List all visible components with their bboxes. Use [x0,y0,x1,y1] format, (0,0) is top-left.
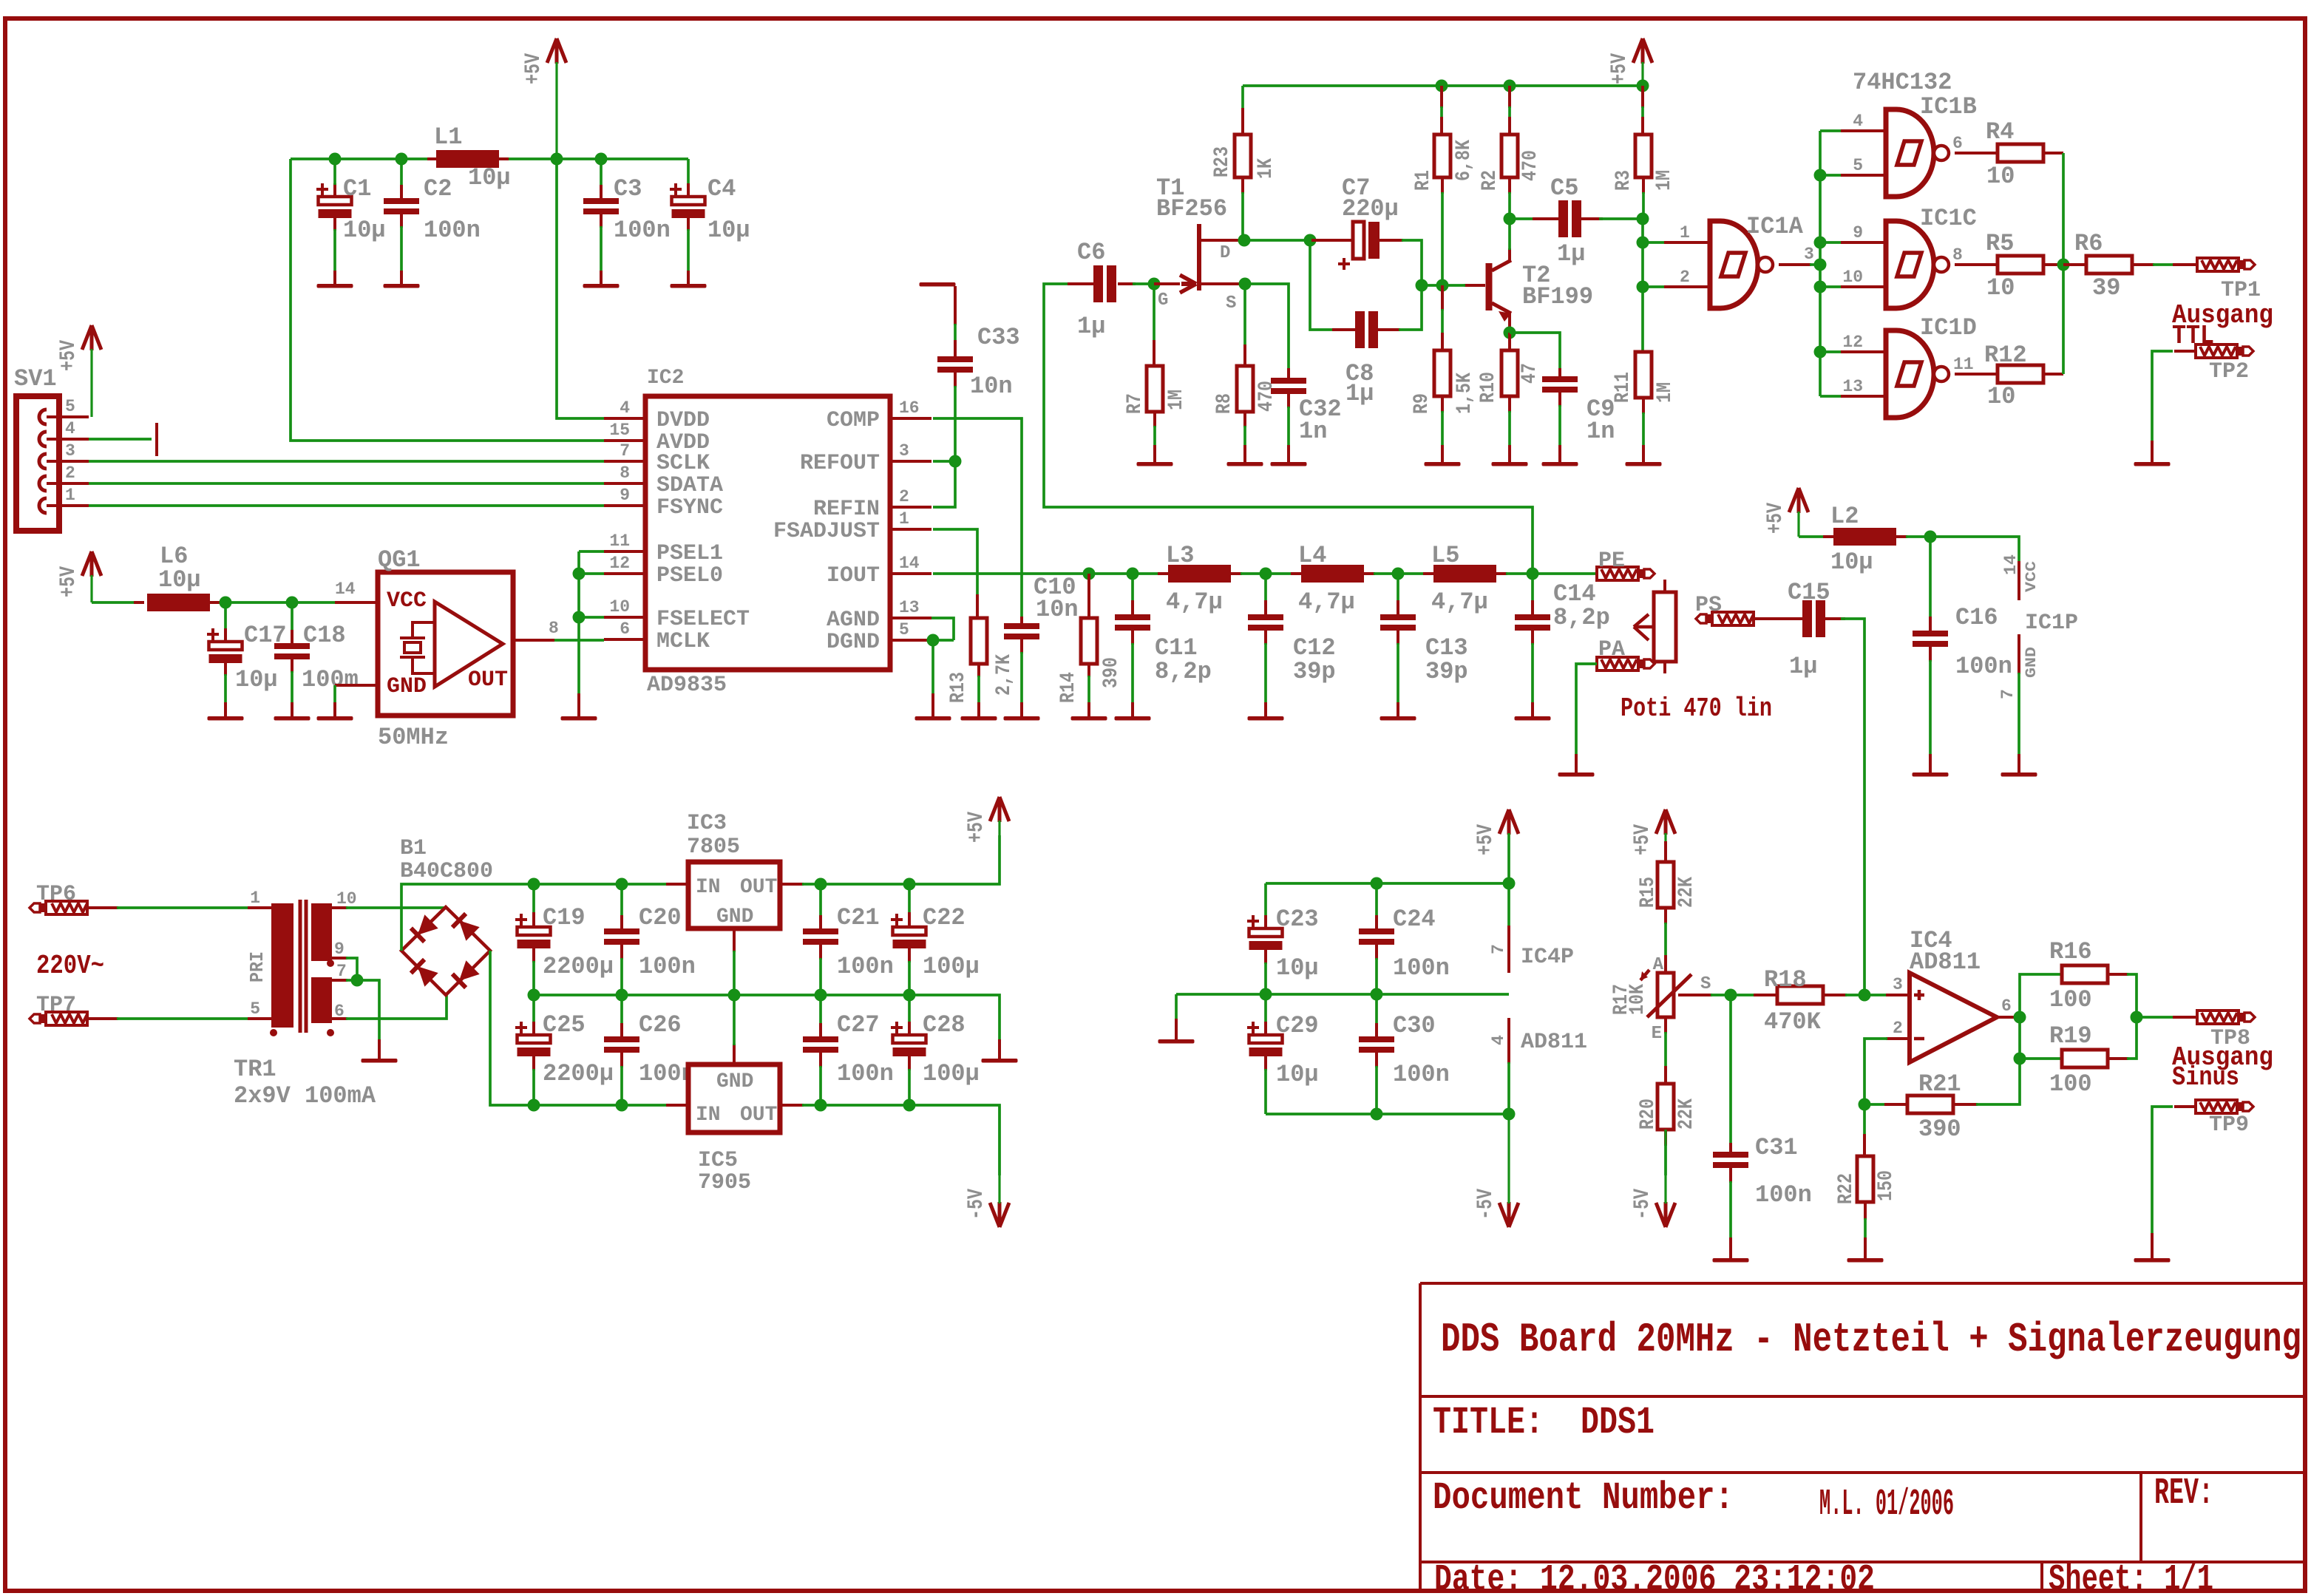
svg-text:AGND: AGND [827,608,880,633]
svg-text:390: 390 [1100,657,1123,688]
svg-text:10µ: 10µ [1276,954,1319,982]
pad TP6 [46,901,87,914]
ground for R22 [1847,1258,1884,1263]
wire FSADJUST to R13 [933,529,977,596]
svg-text:2: 2 [1680,268,1690,287]
svg-text:COMP: COMP [827,408,880,433]
wire L6 to QG1 VCC [220,601,336,604]
diode D-top-left of B1 [418,914,438,935]
svg-text:2200µ: 2200µ [543,1060,614,1087]
svg-text:C2: C2 [424,175,452,203]
svg-text:13: 13 [1842,377,1863,396]
svg-text:C24: C24 [1393,906,1436,933]
resistor R12 [1955,373,1999,376]
capacitor C20 [620,884,623,917]
capacitor C19 [532,884,535,914]
svg-text:VCC: VCC [387,588,427,614]
svg-text:2: 2 [899,487,909,506]
resistor R22 [1863,1104,1866,1135]
inductor L3 [1158,572,1170,575]
wire IC1A output to bus [1779,263,1811,266]
capacitor C18 [291,602,293,631]
svg-text:B40C800: B40C800 [400,859,493,884]
svg-text:C29: C29 [1276,1012,1319,1039]
inductor L1 [427,157,438,160]
svg-text:REV:: REV: [2154,1473,2213,1515]
power symbol +5V (7805 out) [990,797,1009,822]
svg-text:TP6: TP6 [36,882,76,907]
wire PSEL bus to ground [579,550,604,553]
node bus junctions [1814,169,1827,182]
svg-text:+5V: +5V [56,566,81,597]
wire TR1 center tap [332,957,347,960]
connector SV1 [16,396,59,531]
wire QG1 OUT to MCLK [513,639,554,642]
svg-text:REFIN: REFIN [813,497,880,522]
svg-text:100n: 100n [1955,653,2012,680]
svg-text:TP2: TP2 [2209,359,2249,384]
wire drain to C7/C8 [1244,239,1310,242]
svg-text:C6: C6 [1077,239,1105,266]
transistor T2 BF199 [1464,284,1467,287]
wire gate to R7 [1153,284,1155,342]
node PSEL junctions [573,568,586,580]
IC4P power pins [1507,926,1510,973]
svg-text:7: 7 [1998,689,2018,699]
capacitor C7 (220u) [1311,239,1355,242]
svg-text:OUT: OUT [740,876,777,899]
ground above C33 [920,282,956,287]
svg-text:IN: IN [696,876,721,899]
svg-text:D: D [1220,243,1230,263]
capacitor C32 [1287,368,1290,378]
svg-text:PS: PS [1695,593,1722,618]
svg-text:R11: R11 [1612,372,1635,403]
node -rail junctions [528,1099,540,1112]
ground for C11 [1115,716,1151,721]
svg-text:R14: R14 [1057,672,1080,703]
ground for C12 [1248,716,1284,721]
node T1 source junction [1239,278,1252,291]
resistor R10 [1508,333,1511,350]
svg-text:C31: C31 [1755,1134,1798,1161]
wire amp +5V rail [1243,84,1643,87]
IC IC5 7905 [688,1064,780,1133]
wire gate input bus [1819,131,1822,396]
wire L5 to PE [1506,572,1597,575]
svg-text:100n: 100n [837,953,894,980]
capacitor C11 [1131,574,1134,602]
svg-text:-5V: -5V [1473,1189,1499,1220]
wire bridge minus down [490,951,534,1105]
svg-text:10µ: 10µ [468,164,511,191]
svg-text:A: A [1653,955,1664,975]
wire filter tap to C6 [1044,284,1533,574]
svg-text:7805: 7805 [687,835,740,860]
svg-text:5: 5 [65,397,75,416]
svg-text:PRI: PRI [246,951,268,982]
power symbol +5V (IC4P) [1499,809,1518,835]
svg-text:16: 16 [899,398,920,418]
svg-text:4,7µ: 4,7µ [1166,588,1223,616]
resistor R4 [1955,152,1999,154]
resistor R3 [1641,86,1644,108]
capacitor C21 [819,884,822,917]
wire IC4 +5V rail [1266,883,1509,927]
svg-text:R21: R21 [1918,1070,1961,1098]
wire +5V filter rail [291,157,688,160]
svg-text:5: 5 [899,620,909,639]
svg-text:AD9835: AD9835 [647,673,727,698]
svg-text:SDATA: SDATA [656,473,723,498]
resistor R11 [1641,350,1644,352]
pad TP2 [2196,344,2237,358]
potentiometer wiper arrow [1634,614,1654,640]
svg-text:S: S [1700,974,1711,994]
node bypass mid junctions [1260,988,1272,1001]
svg-text:1: 1 [1680,223,1690,242]
svg-text:IC2: IC2 [647,367,684,390]
svg-text:14: 14 [335,580,356,599]
wire AVDD branch [291,159,604,441]
svg-text:R6: R6 [2074,230,2103,257]
svg-text:SV1: SV1 [14,365,57,393]
wire TR1 pin10 to bridge [332,906,347,909]
ground for bypass mid [1175,994,1178,1020]
pad PS [1712,612,1754,625]
svg-text:C33: C33 [977,324,1020,351]
svg-text:C30: C30 [1393,1012,1436,1039]
svg-text:8: 8 [620,463,630,483]
svg-text:PE: PE [1598,549,1625,574]
node opamp out junction [2014,1011,2026,1024]
IC1P power pin 7 GND [2018,634,2020,674]
wire SCLK [89,460,604,463]
node C13 junction [1392,568,1405,580]
svg-text:IC3: IC3 [687,811,727,836]
node C7/C8 left junction [1304,234,1317,247]
svg-text:+5V: +5V [1473,824,1499,855]
power symbol +5V (L2) [1789,488,1808,513]
svg-text:IC1P: IC1P [2025,611,2078,636]
wire L6 left [92,601,135,604]
ground for R8 [1227,462,1263,466]
capacitor C13 [1397,574,1399,602]
wire to T2 base [1422,284,1465,287]
svg-text:1: 1 [65,486,75,505]
svg-text:8: 8 [549,619,559,638]
svg-text:+5V: +5V [1630,824,1655,855]
capacitor C30 [1375,994,1378,1025]
pad TP7 [46,1012,87,1025]
svg-text:GND: GND [2023,647,2040,678]
svg-text:GND: GND [716,906,753,928]
svg-text:C4: C4 [707,175,736,203]
wire out to R16/R19 [2020,974,2063,1017]
svg-text:1,5K: 1,5K [1453,373,1476,414]
node bypass junctions top [1371,877,1383,890]
resistor R13 [976,594,979,618]
svg-text:FSELECT: FSELECT [656,607,750,632]
svg-text:R1: R1 [1412,170,1435,191]
ground for C32 [1271,462,1307,466]
svg-text:R16: R16 [2049,938,2092,965]
ground for C18 [274,716,310,721]
pad TP1 [2197,258,2239,271]
node output junction [2131,1011,2143,1024]
svg-text:9: 9 [620,486,630,505]
svg-text:1µ: 1µ [1077,313,1105,340]
svg-text:MCLK: MCLK [656,629,710,654]
svg-text:C15: C15 [1788,579,1830,606]
svg-text:M.L. 01/2006: M.L. 01/2006 [1819,1484,1954,1526]
node wiper junction [1725,989,1737,1002]
wire to TP8 [2137,1016,2174,1019]
node bypass bottom junctions [1371,1108,1383,1121]
ground for TP9 [2134,1258,2171,1263]
svg-text:10: 10 [1842,268,1863,287]
ground for C1 [317,284,353,288]
node IOUT junctions [1083,568,1096,580]
wire bypass mid rail [1176,993,1509,996]
svg-text:DGND: DGND [827,630,880,655]
capacitor C26 [620,995,623,1025]
ground for C31 [1713,1258,1749,1263]
svg-text:C23: C23 [1276,906,1319,933]
svg-text:100µ: 100µ [923,1060,980,1087]
capacitor C4 [687,159,690,185]
svg-text:7905: 7905 [698,1170,751,1195]
svg-text:9: 9 [1853,223,1863,242]
wire bypass bottom rail [1266,1113,1509,1115]
node T1 gate junction [1148,278,1161,291]
wire TR1 pin6 to bridge [332,1017,347,1020]
svg-text:R2: R2 [1479,170,1501,191]
svg-text:C27: C27 [837,1011,880,1039]
ground for C13 [1380,716,1416,721]
svg-text:IC5: IC5 [698,1148,738,1173]
svg-text:14: 14 [899,554,920,573]
resistor R7 [1153,340,1155,366]
resistor R1 [1440,86,1443,108]
capacitor C3 [600,159,603,186]
svg-text:15: 15 [609,421,630,440]
svg-text:6: 6 [1952,134,1963,153]
resistor R21 [1864,1103,1886,1106]
svg-text:1n: 1n [1299,418,1327,445]
capacitor C25 [532,995,535,1023]
ground for C16 [1913,772,1949,777]
svg-text:12: 12 [1842,333,1863,352]
wire REFOUT/REFIN/C33 vertical [933,386,955,507]
svg-text:1M: 1M [1654,382,1677,403]
wire -9V rail to IC5 IN [534,1104,668,1107]
op-amp IC4 AD811 [1886,994,1910,996]
svg-text:IC1B: IC1B [1920,93,1977,120]
svg-text:TITLE: DDS1: TITLE: DDS1 [1433,1401,1655,1444]
inductor L5 [1423,572,1435,575]
svg-text:+5V: +5V [1763,503,1788,534]
svg-text:Sheet: 1/1: Sheet: 1/1 [2049,1559,2213,1596]
svg-text:S: S [1226,293,1236,313]
svg-text:+5V: +5V [56,340,81,371]
ground for C3 [583,284,620,288]
ground for TP2 [2134,462,2171,466]
resistor R23 [1241,108,1244,135]
resistor R18 [1754,994,1779,996]
svg-text:GND: GND [716,1070,753,1093]
svg-text:100n: 100n [614,217,671,244]
pad TP9 [2196,1100,2237,1113]
IC1P power pin 14 VCC [2018,561,2020,600]
IC IC3 7805 [666,883,688,886]
svg-text:3: 3 [65,441,75,461]
svg-text:BF256: BF256 [1156,195,1227,223]
IC2 left pins [604,417,645,420]
antenna stub symbol [155,423,158,456]
svg-text:OUT: OUT [740,1104,777,1127]
ground for C10 [1004,716,1040,721]
wire 0V mid rail [534,995,1000,1041]
svg-text:SCLK: SCLK [656,451,710,476]
svg-text:22K: 22K [1675,1098,1698,1130]
wire IOUT [933,572,1168,575]
resistor R2 [1508,86,1511,108]
ground for R9 [1425,462,1461,466]
ground for C17 [208,716,244,721]
gate IC1A 74HC132 [1643,241,1666,244]
svg-text:BF199: BF199 [1522,283,1593,310]
power symbol +5V (top filter) [547,38,566,64]
svg-text:5: 5 [250,999,260,1019]
node output join junction [2057,259,2070,271]
wire TP6 to TR1 pin1 [87,906,118,909]
capacitor C8 (parallel) [1310,240,1334,330]
svg-text:220µ: 220µ [1342,195,1399,223]
node C7/C8 right junction [1416,279,1428,292]
capacitor C6 [1068,282,1093,285]
svg-text:22K: 22K [1675,877,1698,908]
svg-text:FSADJUST: FSADJUST [773,519,880,544]
resistor R20 [1664,1017,1667,1033]
svg-text:C28: C28 [923,1011,966,1039]
wire FSYNC [89,504,604,507]
svg-text:100m: 100m [302,666,359,693]
node T1 drain junction [1238,234,1251,247]
svg-text:IC1A: IC1A [1746,213,1804,240]
svg-text:12: 12 [609,554,630,573]
wire TP7 to TR1 pin5 [87,1017,118,1020]
svg-text:FSYNC: FSYNC [656,495,723,520]
node T2 emitter junction [1504,327,1516,339]
svg-text:100n: 100n [639,953,696,980]
wire PS to C15 [1754,617,1804,620]
IC2 right pins [890,417,931,420]
svg-text:IC4P: IC4P [1521,945,1574,970]
svg-text:10µ: 10µ [707,217,750,244]
power symbol -5V (R20) [1656,1202,1675,1227]
pad PA [1597,657,1638,670]
svg-text:1n: 1n [1587,418,1615,445]
svg-text:8: 8 [1952,245,1963,265]
svg-text:AD811: AD811 [1521,1030,1587,1055]
svg-text:100: 100 [2049,986,2092,1013]
node rail junctions [528,878,540,891]
svg-text:Date: 12.03.2006 23:12:02: Date: 12.03.2006 23:12:02 [1434,1559,1875,1596]
svg-text:47: 47 [1518,363,1541,384]
svg-text:R20: R20 [1637,1098,1660,1130]
capacitor C27 [819,995,822,1025]
node R18/C15 junction [1859,989,1871,1002]
node R19 left junction [2014,1053,2026,1065]
svg-text:39: 39 [2092,274,2120,302]
svg-text:Document Number:: Document Number: [1433,1476,1734,1520]
ground for R7 [1137,462,1173,466]
svg-text:13: 13 [899,598,920,617]
capacitor C2 [400,159,403,186]
svg-text:4: 4 [1489,1035,1508,1045]
svg-text:PSEL1: PSEL1 [656,541,723,566]
pad TP8 [2197,1011,2239,1024]
oscillator QG1 50MHz [378,572,513,716]
svg-text:C3: C3 [614,175,642,203]
svg-text:R13: R13 [947,672,970,703]
inductor L4 [1291,572,1303,575]
ground for mid rail [998,1039,1001,1059]
node out rail junctions [815,878,827,891]
svg-text:74HC132: 74HC132 [1853,69,1952,96]
node IC1A input junctions [1637,237,1649,249]
capacitor C9 [1510,333,1560,370]
svg-text:100n: 100n [837,1060,894,1087]
capacitor C10 [1020,617,1023,623]
wire DVDD branch [557,159,604,418]
wire COMP to C10 [933,418,1022,618]
ground for C2 [384,284,420,288]
node C16 junction [1924,531,1937,543]
svg-text:2x9V 100mA: 2x9V 100mA [234,1082,376,1110]
svg-text:10: 10 [1986,163,2015,190]
IC IC2 AD9835 box [645,396,890,670]
wire L2 left [1799,535,1825,538]
ground for C9 [1542,462,1578,466]
resistor R14 [1087,574,1090,618]
svg-text:R5: R5 [1986,230,2014,257]
svg-text:R15: R15 [1637,877,1660,908]
svg-text:10: 10 [1987,383,2015,410]
wire +5V out rail [802,835,1000,884]
pad PE [1597,567,1638,580]
ground for R10 [1492,462,1528,466]
svg-text:L4: L4 [1298,542,1326,569]
capacitor C1 [333,183,336,197]
crystal inside QG1 [400,622,435,673]
svg-text:VCC: VCC [2023,561,2040,592]
wire IC1P GND to ground [2018,673,2020,755]
svg-text:C21: C21 [837,904,880,931]
svg-text:R23: R23 [1211,146,1234,177]
node mid rail junctions [528,989,540,1002]
resistor R19 [2020,1057,2063,1060]
IC5 GND stub [733,1044,736,1064]
svg-text:100n: 100n [424,217,481,244]
resistor R8 [1243,344,1246,366]
node -5V out junctions [815,1099,827,1112]
svg-text:C19: C19 [543,904,586,931]
svg-text:C16: C16 [1955,604,1998,631]
node amp rail junctions [1436,80,1448,92]
capacitor C12 [1264,574,1267,602]
